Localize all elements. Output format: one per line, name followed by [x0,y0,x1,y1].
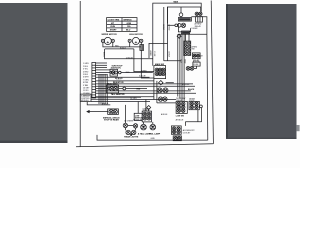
svg-text:1 GRN: 1 GRN [83,63,89,65]
schematic bottom border [76,144,213,147]
svg-text:START: START [110,29,118,32]
wire second run [105,48,134,50]
wire M2 to fuse [140,42,142,44]
motor M2 left terminal [128,39,131,42]
connector table [107,18,137,32]
rear loop X circle c [126,130,130,134]
right block bottom edge [226,138,297,139]
svg-text:9 TAN: 9 TAN [83,84,89,87]
main harness box [153,3,201,66]
svg-text:AT BLUE: AT BLUE [115,77,123,80]
bundle rail to relay [164,60,181,62]
svg-text:A BLUE: A BLUE [139,74,146,77]
svg-text:A BLU: A BLU [103,52,106,58]
control module box [80,94,91,101]
svg-text:AT BLUE: AT BLUE [176,119,184,122]
svg-text:WIRING: WIRING [123,19,131,21]
connector X circles C1 C2 [195,12,202,15]
center vertical bundle [177,34,179,96]
schematic stroke group [76,1,213,147]
wire red/blk drop [134,49,154,72]
svg-text:ENTER SW: ENTER SW [133,120,143,122]
rear loop X circle d [132,130,136,134]
svg-text:7 ORN: 7 ORN [83,79,89,81]
tail lamp L2 [150,124,156,130]
long wire rail B [167,7,169,61]
rear loop wires [128,125,134,127]
right dark backing block [226,4,297,139]
svg-text:RELAY ASSY: RELAY ASSY [107,83,118,86]
wire drop to long feed [105,49,153,59]
limit switch X pair box [108,109,119,115]
rear loop X circle b [133,124,137,128]
wire feed to low switch [137,102,139,114]
svg-text:12 BRN: 12 BRN [83,93,90,95]
svg-text:RUN: RUN [111,26,116,28]
svg-text:14 BLK: 14 BLK [168,51,170,58]
right inner rail [206,34,209,140]
motor M1 left terminal [101,39,104,42]
svg-text:SW: SW [192,49,195,51]
svg-text:FUSE: FUSE [194,64,200,66]
ignition chain circles [175,24,178,27]
svg-text:BLACK: BLACK [188,88,195,91]
wire to right rail [191,17,207,34]
module out wires [91,96,141,98]
svg-text:10 GRY: 10 GRY [83,88,90,90]
relay module A [110,69,153,76]
svg-text:SWITCH: SWITCH [135,118,143,120]
svg-text:REAR LIGHTS: REAR LIGHTS [124,136,139,139]
svg-text:LOCK: LOCK [189,100,195,102]
right block left shadow edge [226,4,228,139]
svg-text:LOW SW: LOW SW [176,116,184,118]
relay module B [107,85,148,93]
svg-text:6 WHT: 6 WHT [83,77,89,79]
svg-text:COVER: COVER [191,28,198,30]
X cluster 2x2 box [142,111,151,122]
switch cluster box S1 [154,66,166,79]
svg-text:11 VIO: 11 VIO [83,90,89,92]
svg-text:14 GRN: 14 GRN [130,98,137,100]
svg-text:BLACK: BLACK [120,47,127,50]
small box right mid [193,62,200,66]
schematic right border [211,1,213,144]
small terminal right of cluster [200,105,203,108]
high motor M2 [132,37,139,44]
long wire rail A [163,7,165,61]
svg-text:14 BLK: 14 BLK [162,24,164,31]
lamp stubs [143,122,145,124]
svg-text:TAIL LAMP: TAIL LAMP [149,133,161,136]
svg-text:A RED: A RED [149,51,152,57]
wire horizontal y34 [178,33,207,35]
wire with arrow [89,111,108,113]
accessory block 2x2 [171,126,181,134]
terminal T1 [179,13,183,17]
svg-text:MAIN SW: MAIN SW [155,63,164,66]
wire motor M1 down [103,42,141,47]
wire corner y43 [149,43,168,58]
small relay box with X pair [192,53,200,59]
pin connector strip [92,63,96,98]
rear loop X circle a [123,123,127,127]
module lower outline [87,102,110,105]
diamond node D1 [177,34,181,38]
right X pair mid [186,67,190,71]
connector grid 2x4 X block [184,41,191,56]
wire feed to dimmer cluster [145,100,147,112]
svg-text:RELAY: RELAY [193,59,200,62]
inner bottom frame [97,135,208,140]
left block bottom shadow edge [0,141,68,143]
svg-text:14 BLUE: 14 BLUE [126,57,134,59]
wire M1 right terminal drop [112,42,114,47]
wire y82 [166,82,174,84]
wire fuse down to switch [141,50,154,78]
svg-text:(SUN ROOF): (SUN ROOF) [111,68,121,70]
motor M1 right terminal [111,39,114,42]
svg-text:TAIL MASTER: TAIL MASTER [111,93,125,96]
svg-text:SWITCH: SWITCH [143,110,150,112]
svg-text:GND: GND [151,138,156,140]
wiper motor M1 [104,37,111,44]
motor M2 right terminal [140,39,143,42]
wire chain to rail [168,24,175,26]
svg-text:8 PNK: 8 PNK [83,82,89,84]
relay box K1 [196,17,203,23]
page left border [79,1,81,147]
svg-text:3 YEL: 3 YEL [83,69,88,71]
wire switch rail down [153,79,155,100]
svg-text:A BLUE: A BLUE [161,113,168,116]
svg-text:4 RED: 4 RED [83,71,89,73]
svg-text:PANEL: PANEL [176,99,182,102]
tail lamp L1 [141,124,147,130]
diamond node D3 [147,106,151,110]
switch sub box [178,23,190,32]
svg-text:A BLUE: A BLUE [102,103,109,106]
svg-text:5 BLK: 5 BLK [83,74,89,76]
harness bundle wires [96,62,107,64]
X pair lower [158,97,162,101]
svg-text:FUSE: FUSE [153,52,155,58]
inner harness box [167,7,200,23]
page background [0,0,300,168]
svg-text:AT BLUE: AT BLUE [182,83,190,86]
svg-text:OUTLET: OUTLET [183,132,191,134]
svg-text:HIGH MOTOR: HIGH MOTOR [129,34,143,36]
drop from switch [156,81,158,103]
svg-text:MAIN: MAIN [174,0,179,3]
svg-text:GRN: GRN [127,23,132,25]
cluster drop wires [197,110,199,122]
svg-text:16 RED: 16 RED [168,24,170,31]
svg-text:2 BLU: 2 BLU [83,66,89,68]
X pair under switch [157,88,162,93]
cluster box right-bottom 2x3 [176,101,187,113]
resistor block R1 [178,18,191,22]
svg-text:WIPER MOTOR: WIPER MOTOR [102,34,118,36]
small gray tab right margin [297,125,300,131]
svg-text:MODULE: MODULE [81,100,89,102]
terminal T1 stub [180,7,182,13]
svg-text:STOP IN REAR: STOP IN REAR [104,119,119,122]
svg-text:A RED: A RED [141,70,147,73]
accessory pair below [173,136,181,141]
cluster box far right 2x2 [189,101,199,109]
terminal dots [102,40,103,41]
low switch box [134,113,142,120]
grid feed wires [185,34,187,41]
text layer [81,0,204,140]
module drop wires [98,74,100,104]
left dark backing block [0,3,68,143]
svg-text:BLU: BLU [126,30,131,32]
label box dark [182,31,190,34]
wire M2 left terminal drop [129,42,131,47]
fuse hatch box F1 [140,45,144,51]
diode blob [130,134,132,136]
diamond node D2 [159,81,163,85]
drop wire to rear lamp loop [124,105,126,123]
svg-text:CONT TRM: CONT TRM [108,19,120,21]
